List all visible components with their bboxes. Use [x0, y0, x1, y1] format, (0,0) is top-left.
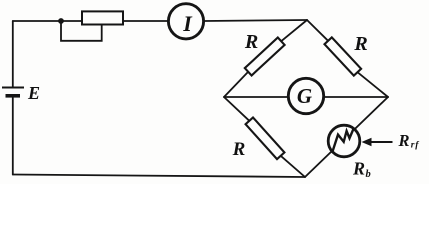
- wire bridge arm top-right lower segment: [358, 72, 389, 97]
- wire bridge arm bottom-right (through bolometer): [305, 97, 388, 177]
- wire bridge arm top-left upper segment: [281, 20, 307, 41]
- RF input arrowhead: [362, 138, 372, 146]
- svg-text:E: E: [27, 83, 40, 103]
- wire bridge arm bottom-left upper segment: [224, 97, 249, 121]
- resistor R top-right box: [324, 37, 361, 75]
- resistor R bottom-left box: [246, 117, 285, 159]
- wire ammeter to bridge top node: [204, 20, 307, 21]
- wire left vertical top (battery + to top rail): [12, 21, 14, 87]
- resistor R top-left box: [245, 38, 285, 76]
- RF input arrow line: [368, 141, 393, 143]
- svg-text:G: G: [297, 84, 312, 108]
- wire rheostat wiper tap: [61, 21, 102, 41]
- wire galvanometer diagonal (left node to right node): [224, 96, 388, 98]
- svg-text:R: R: [244, 31, 258, 53]
- svg-text:b: b: [366, 169, 371, 180]
- node junction dot: [58, 18, 64, 24]
- wire bottom rail: [13, 175, 305, 178]
- battery E plate long: [2, 87, 24, 89]
- svg-text:rf: rf: [411, 141, 419, 151]
- wire bridge arm bottom-left lower segment: [281, 156, 305, 177]
- svg-text:R: R: [232, 139, 246, 160]
- bolometer zigzag element: [333, 129, 354, 151]
- galvanometer G circle: [288, 78, 323, 113]
- bolometer Rb circle: [328, 125, 360, 157]
- wire bridge arm top-right upper segment: [307, 20, 328, 41]
- svg-text:R: R: [352, 159, 365, 179]
- rheostat (slide-wire resistor): [82, 11, 123, 24]
- wire top rail (E to ammeter): [13, 20, 168, 22]
- wire left vertical bottom (battery - to bottom rail): [12, 96, 14, 175]
- svg-text:I: I: [182, 11, 193, 36]
- battery E plate short: [6, 94, 21, 98]
- wire bridge arm top-left lower segment: [224, 72, 248, 97]
- svg-text:R: R: [353, 33, 367, 55]
- svg-text:R: R: [397, 131, 409, 150]
- ammeter U1 circle: [168, 4, 203, 39]
